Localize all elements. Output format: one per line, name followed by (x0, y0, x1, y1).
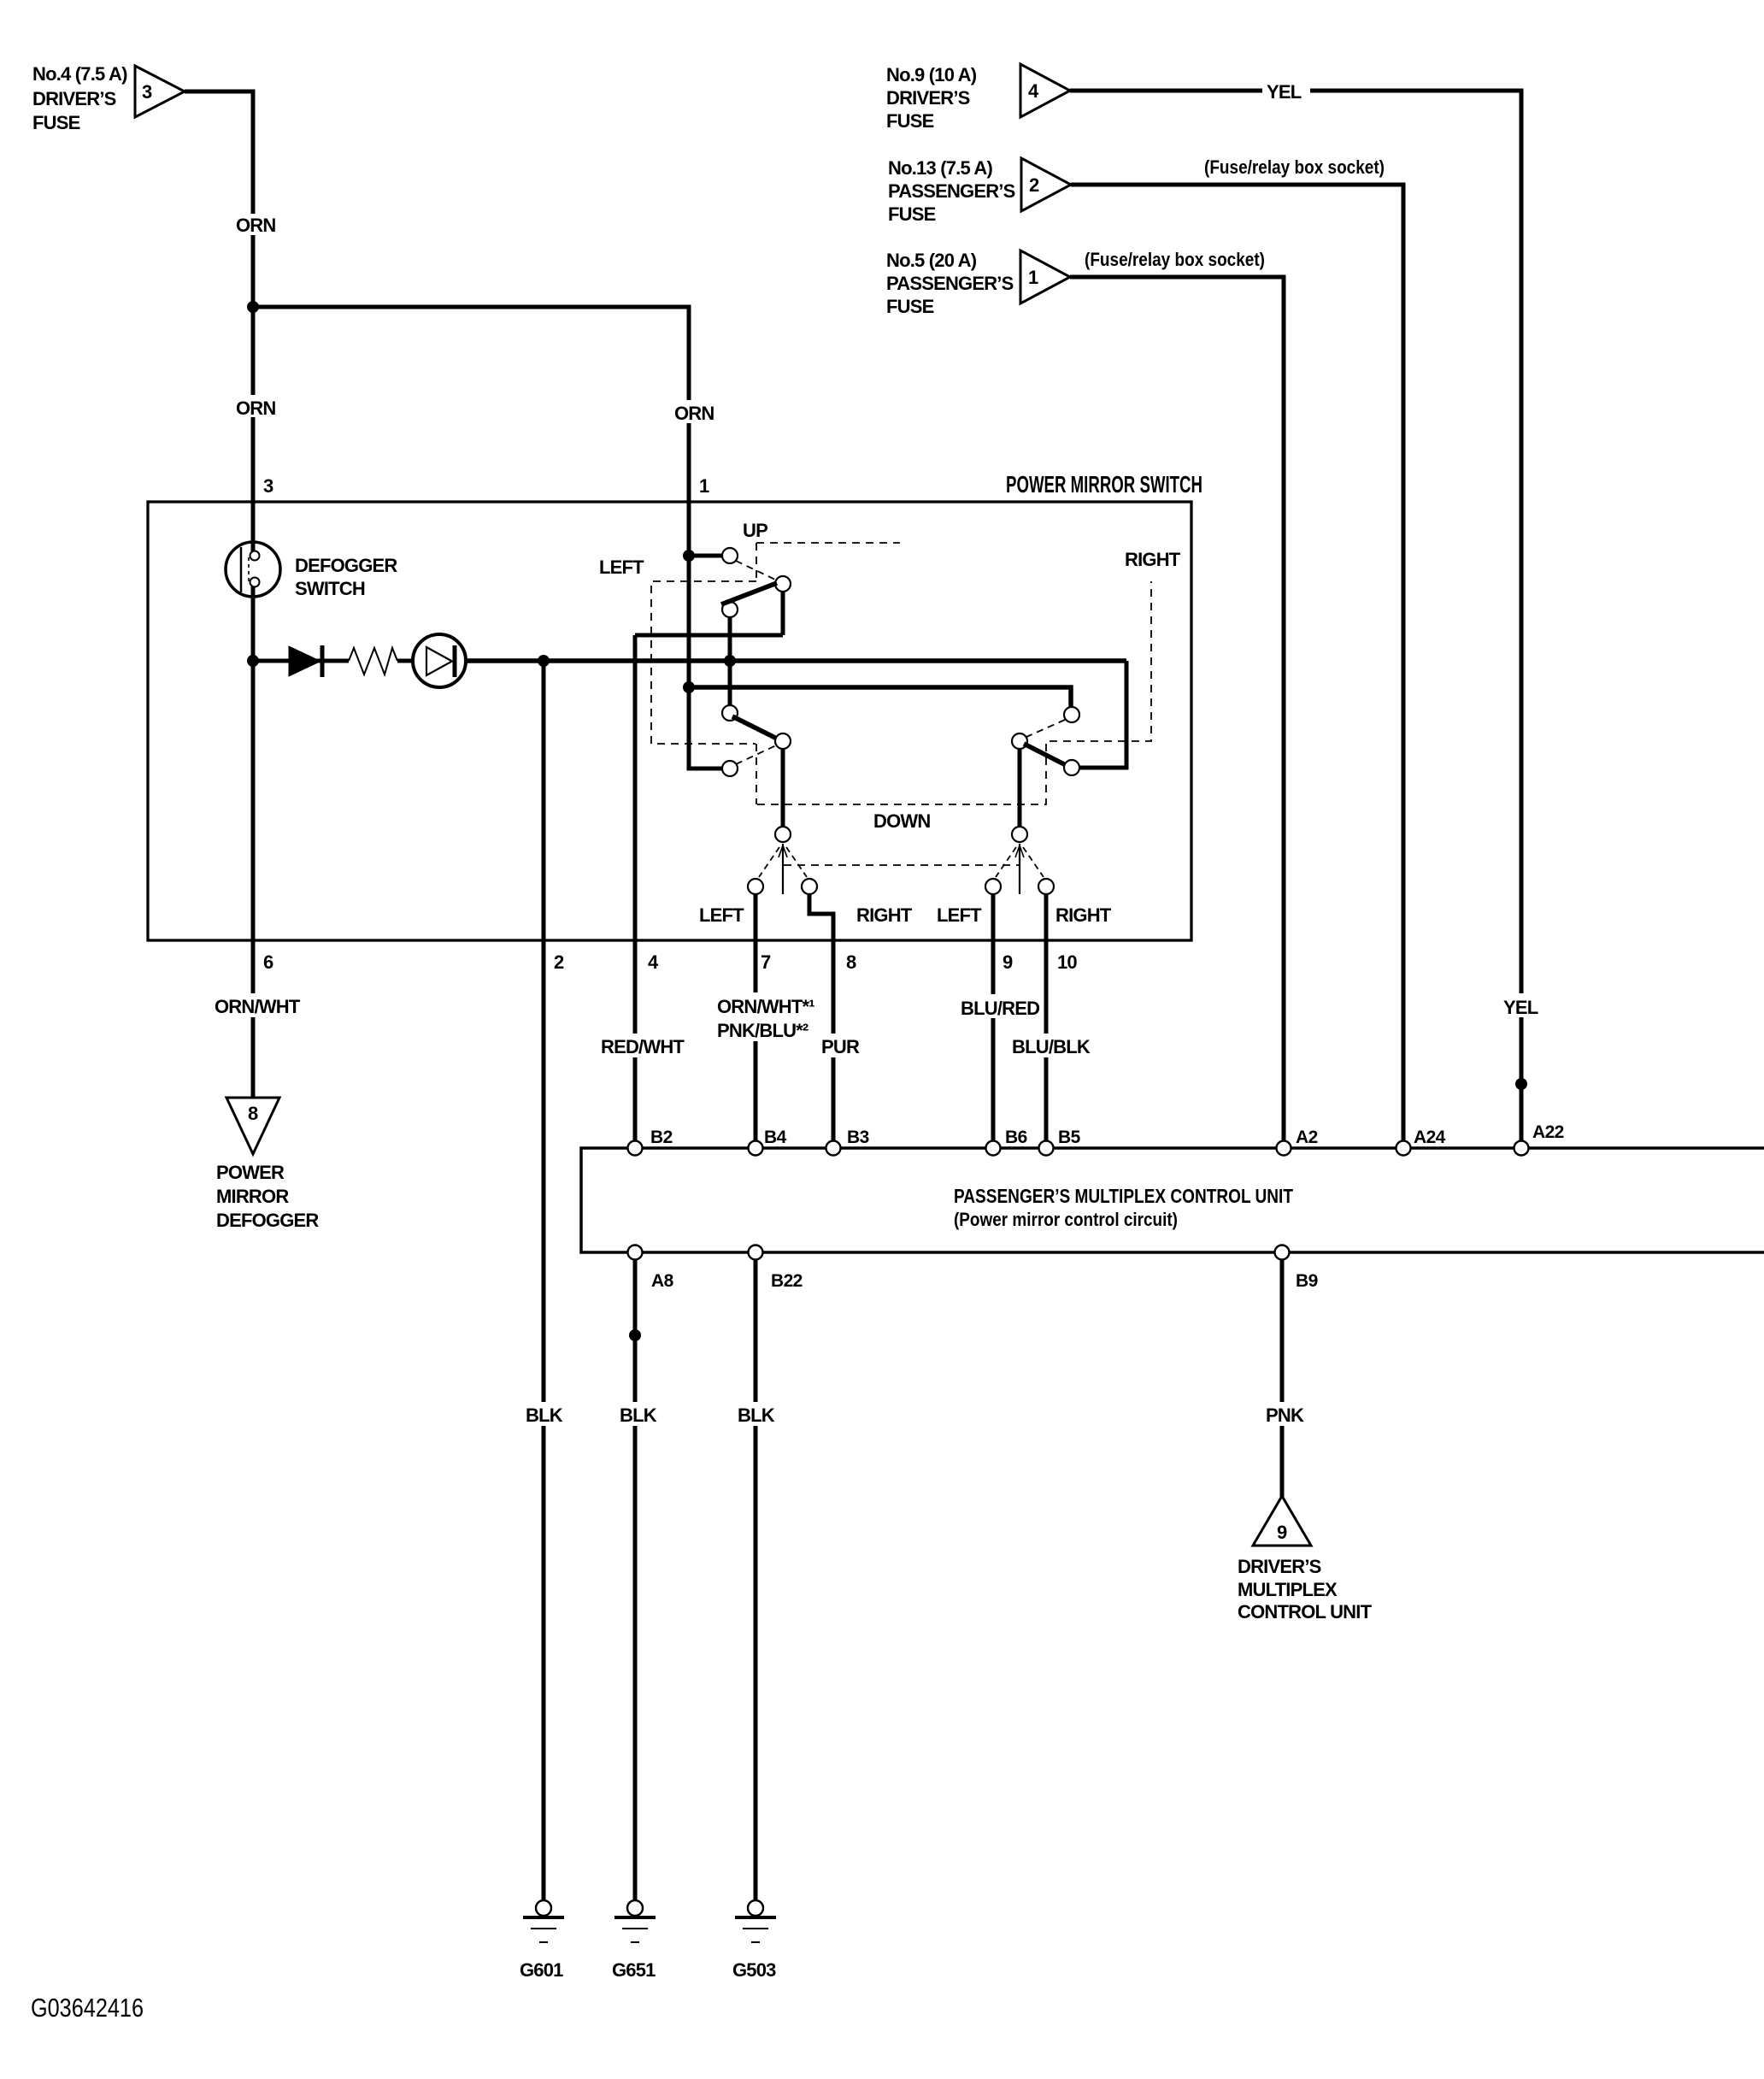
svg-text:No.13 (7.5 A): No.13 (7.5 A) (888, 157, 993, 179)
wire A8 to ground G651 (633, 1259, 638, 1900)
contact right blade pivot (1012, 733, 1027, 749)
contact pin7 (748, 879, 763, 894)
svg-text:SWITCH: SWITCH (295, 578, 365, 599)
svg-text:2: 2 (1029, 174, 1039, 196)
power mirror switch box (148, 471, 1202, 940)
terminal A24 (1396, 1128, 1446, 1156)
svg-text:A22: A22 (1532, 1122, 1564, 1142)
blade left select (779, 844, 787, 894)
svg-text:BLK: BLK (620, 1405, 657, 1426)
wire left middle contact to line A (728, 616, 732, 706)
svg-text:BLU/RED: BLU/RED (961, 998, 1039, 1019)
wire pin 10 to B5 (1044, 894, 1049, 1141)
svg-text:DRIVER’S: DRIVER’S (1238, 1556, 1321, 1577)
terminal B2 (628, 1128, 673, 1156)
svg-text:4: 4 (1028, 80, 1039, 102)
dashed linkage DOWN bar (757, 581, 1151, 804)
svg-text:PASSENGER’S: PASSENGER’S (888, 180, 1015, 202)
contact left bottom fixed (722, 761, 738, 776)
LED illumination lamp (413, 634, 466, 687)
terminal B9 (1275, 1246, 1318, 1292)
svg-text:B9: B9 (1296, 1271, 1318, 1291)
wire ORN branch to power mirror switch pin 1 (253, 307, 722, 769)
passenger's multiplex control unit U1 (581, 1148, 1764, 1252)
wire line B to right switch (689, 687, 1071, 708)
svg-text:1: 1 (699, 475, 709, 497)
svg-text:B6: B6 (1005, 1128, 1027, 1147)
dashed linkage select bar (784, 864, 1020, 866)
wire resistor to LED (397, 659, 414, 663)
terminal B22 (749, 1246, 803, 1292)
svg-text:8: 8 (248, 1103, 258, 1124)
dashed select throws right (996, 847, 1044, 877)
terminal A2 (1277, 1128, 1318, 1156)
wire pin 7 to B4 (754, 894, 758, 1141)
contact pin8 (802, 879, 817, 894)
wire label ORN (pin 1) (672, 400, 716, 424)
wire label BLU/BLK (1009, 1034, 1091, 1057)
dashed blade alternate (up-left) (736, 561, 775, 580)
dashed blade alternate (right-top) (1026, 720, 1065, 737)
wire label ORN/WHT pin6 (212, 993, 303, 1017)
fuse connector 1 (No.5 20A passenger's fuse) (886, 250, 1070, 317)
wire label ORN (pin 3) (233, 395, 278, 419)
contact left-down blade top (722, 705, 738, 721)
svg-text:B3: B3 (847, 1128, 869, 1147)
svg-text:8: 8 (846, 951, 856, 973)
dashed select throws left (759, 847, 807, 877)
svg-text:A24: A24 (1414, 1128, 1446, 1147)
fuse connector 3 (No.4 7.5A driver's fuse) (32, 63, 185, 133)
switch blade left-up (721, 583, 777, 604)
svg-text:ORN/WHT*¹: ORN/WHT*¹ (717, 996, 814, 1017)
wire label ORN (upper) (233, 214, 278, 236)
contact left-down right (775, 733, 791, 749)
wire label BLK (G651) (617, 1402, 658, 1426)
svg-text:G03642416: G03642416 (31, 1993, 144, 2023)
wire label PUR (818, 1034, 860, 1057)
svg-text:B5: B5 (1058, 1128, 1081, 1147)
fuse connector 4 (No.9 10A driver's fuse) (886, 64, 1070, 132)
svg-text:DRIVER’S: DRIVER’S (32, 88, 116, 109)
svg-text:4: 4 (648, 951, 659, 973)
svg-text:ORN: ORN (674, 403, 714, 424)
svg-text:PUR: PUR (821, 1036, 860, 1057)
wire right bottom contact to line A (1079, 661, 1126, 768)
wire left select feed (781, 748, 785, 827)
wire right select feed (1018, 748, 1022, 827)
svg-text:(Power mirror control circuit): (Power mirror control circuit) (954, 1209, 1178, 1230)
svg-text:ORN: ORN (236, 215, 276, 236)
wire B22 to ground G503 (754, 1259, 758, 1900)
wire pin 2 to ground G601 (542, 661, 546, 1900)
svg-text:DEFOGGER: DEFOGGER (216, 1210, 319, 1231)
wire label YEL (top) (1262, 79, 1310, 103)
svg-text:7: 7 (761, 951, 771, 973)
dashed linkage UP box (756, 543, 900, 581)
node junction pin1 lower (683, 681, 695, 693)
contact right select pivot (1012, 827, 1027, 842)
terminal B6 (986, 1128, 1027, 1156)
diode D1 (289, 645, 322, 677)
wire label BLU/RED (958, 994, 1039, 1019)
blade right select (1015, 844, 1024, 894)
connector 9 driver's multiplex control unit (1238, 1496, 1373, 1623)
fuse connector 2 (No.13 7.5A passenger's fuse) (888, 157, 1071, 225)
node junction pin1 upper (683, 550, 695, 562)
svg-text:No.5 (20 A): No.5 (20 A) (886, 250, 977, 271)
svg-text:DRIVER’S: DRIVER’S (886, 87, 970, 109)
svg-text:CONTROL UNIT: CONTROL UNIT (1238, 1601, 1373, 1623)
switch blade left-down (732, 716, 780, 740)
wire pin 9 to B6 (991, 894, 996, 1141)
wire label PNK (1263, 1402, 1306, 1426)
svg-text:B4: B4 (764, 1128, 787, 1147)
svg-text:(Fuse/relay box socket): (Fuse/relay box socket) (1204, 156, 1385, 178)
ground G503 (732, 1900, 776, 1981)
svg-text:LEFT: LEFT (699, 904, 744, 926)
contact left blade top (775, 576, 791, 592)
terminal A22 (1514, 1122, 1564, 1156)
wire fuse1 to A2 (1070, 277, 1284, 1141)
svg-text:PNK: PNK (1266, 1405, 1304, 1426)
svg-text:BLK: BLK (526, 1405, 563, 1426)
wire fuse4 YEL to A22 (1070, 91, 1521, 1141)
svg-text:DOWN: DOWN (873, 810, 930, 832)
defogger switch SW1 (226, 540, 397, 599)
wire pin 4 link (635, 591, 783, 635)
svg-text:G651: G651 (612, 1959, 656, 1981)
wire label BLK (G503) (735, 1402, 776, 1426)
node junction on YEL wire (1515, 1078, 1527, 1090)
svg-text:G601: G601 (520, 1959, 563, 1981)
svg-text:3: 3 (263, 475, 273, 497)
svg-text:(Fuse/relay box socket): (Fuse/relay box socket) (1085, 249, 1265, 270)
svg-text:9: 9 (1277, 1522, 1287, 1543)
svg-text:YEL: YEL (1503, 997, 1538, 1018)
dashed linkage left box (651, 581, 756, 804)
svg-text:BLK: BLK (738, 1405, 775, 1426)
svg-text:No.9 (10 A): No.9 (10 A) (886, 64, 977, 85)
svg-text:RIGHT: RIGHT (856, 904, 913, 926)
wire label YEL (A22) (1501, 993, 1542, 1018)
contact UP-left fixed (722, 548, 738, 563)
svg-text:RIGHT: RIGHT (1055, 904, 1112, 926)
svg-text:FUSE: FUSE (886, 296, 934, 317)
connector 8 power mirror defogger (216, 1098, 319, 1231)
node junction left switch common (724, 655, 736, 667)
svg-text:1: 1 (1028, 267, 1038, 288)
svg-text:6: 6 (263, 951, 273, 973)
svg-text:PNK/BLU*²: PNK/BLU*² (717, 1020, 808, 1041)
wire illumination branch (253, 659, 349, 663)
svg-text:10: 10 (1057, 951, 1077, 973)
svg-text:RED/WHT: RED/WHT (601, 1036, 685, 1057)
svg-text:B22: B22 (771, 1271, 803, 1291)
svg-text:PASSENGER’S: PASSENGER’S (886, 273, 1014, 294)
svg-text:LEFT: LEFT (937, 904, 982, 926)
svg-text:2: 2 (554, 951, 564, 973)
wire label ORN/WHT*1 (714, 992, 819, 1041)
wire pin 4 down to B2 (633, 635, 638, 1141)
svg-text:3: 3 (142, 81, 152, 103)
contact left middle fixed (722, 602, 738, 617)
svg-text:No.4 (7.5 A): No.4 (7.5 A) (32, 63, 127, 85)
wire mirror common line A (466, 658, 1126, 663)
node junction on A8 wire (629, 1329, 641, 1341)
terminal B3 (826, 1128, 869, 1156)
node junction pin 2 tap (538, 655, 550, 667)
svg-text:UP: UP (743, 520, 767, 541)
svg-text:9: 9 (1003, 951, 1013, 973)
svg-text:MULTIPLEX: MULTIPLEX (1238, 1579, 1338, 1600)
svg-text:BLU/BLK: BLU/BLK (1012, 1036, 1091, 1057)
node junction ORN split (247, 301, 259, 313)
svg-text:G503: G503 (732, 1959, 776, 1981)
wire B9 PNK to connector 9 (1280, 1259, 1285, 1498)
dashed blade alternate (left-bottom) (736, 745, 776, 764)
svg-text:ORN/WHT: ORN/WHT (215, 996, 301, 1017)
svg-text:POWER MIRROR SWITCH: POWER MIRROR SWITCH (1006, 471, 1202, 498)
wire label RED/WHT (597, 1034, 685, 1057)
contact pin10 (1038, 879, 1054, 894)
svg-text:FUSE: FUSE (32, 112, 80, 133)
svg-text:A2: A2 (1296, 1128, 1318, 1147)
contact right switch top fixed (1064, 707, 1079, 722)
contact left select pivot (775, 827, 791, 842)
contact right bottom fixed (1064, 760, 1079, 775)
wire fuse3 to defogger branch (185, 91, 253, 1098)
svg-text:A8: A8 (651, 1271, 674, 1291)
svg-text:YEL: YEL (1267, 81, 1302, 103)
svg-text:RIGHT: RIGHT (1125, 549, 1181, 570)
resistor R1 (349, 648, 397, 674)
svg-text:B2: B2 (650, 1128, 673, 1147)
switch blade right (1024, 744, 1067, 766)
ground G651 (612, 1900, 656, 1981)
wire pin 8 to B3 (809, 894, 833, 1141)
terminal B5 (1039, 1128, 1081, 1156)
terminal A8 (628, 1246, 674, 1292)
node junction at defogger branch (247, 655, 259, 667)
svg-text:PASSENGER’S MULTIPLEX CONTROL: PASSENGER’S MULTIPLEX CONTROL UNIT (954, 1185, 1293, 1207)
terminal B4 (749, 1128, 787, 1156)
svg-text:MIRROR: MIRROR (216, 1186, 289, 1207)
svg-text:FUSE: FUSE (886, 110, 934, 132)
wire pin1 feed to UP contact (689, 554, 722, 558)
svg-text:ORN: ORN (236, 398, 276, 419)
svg-text:DEFOGGER: DEFOGGER (295, 555, 397, 576)
contact pin9 (985, 879, 1001, 894)
wire label BLK (G601) (523, 1402, 564, 1426)
ground G601 (520, 1900, 564, 1981)
svg-text:FUSE: FUSE (888, 203, 936, 225)
svg-text:POWER: POWER (216, 1162, 285, 1183)
svg-text:LEFT: LEFT (599, 557, 644, 578)
wire fuse2 to A24 (1071, 185, 1403, 1141)
